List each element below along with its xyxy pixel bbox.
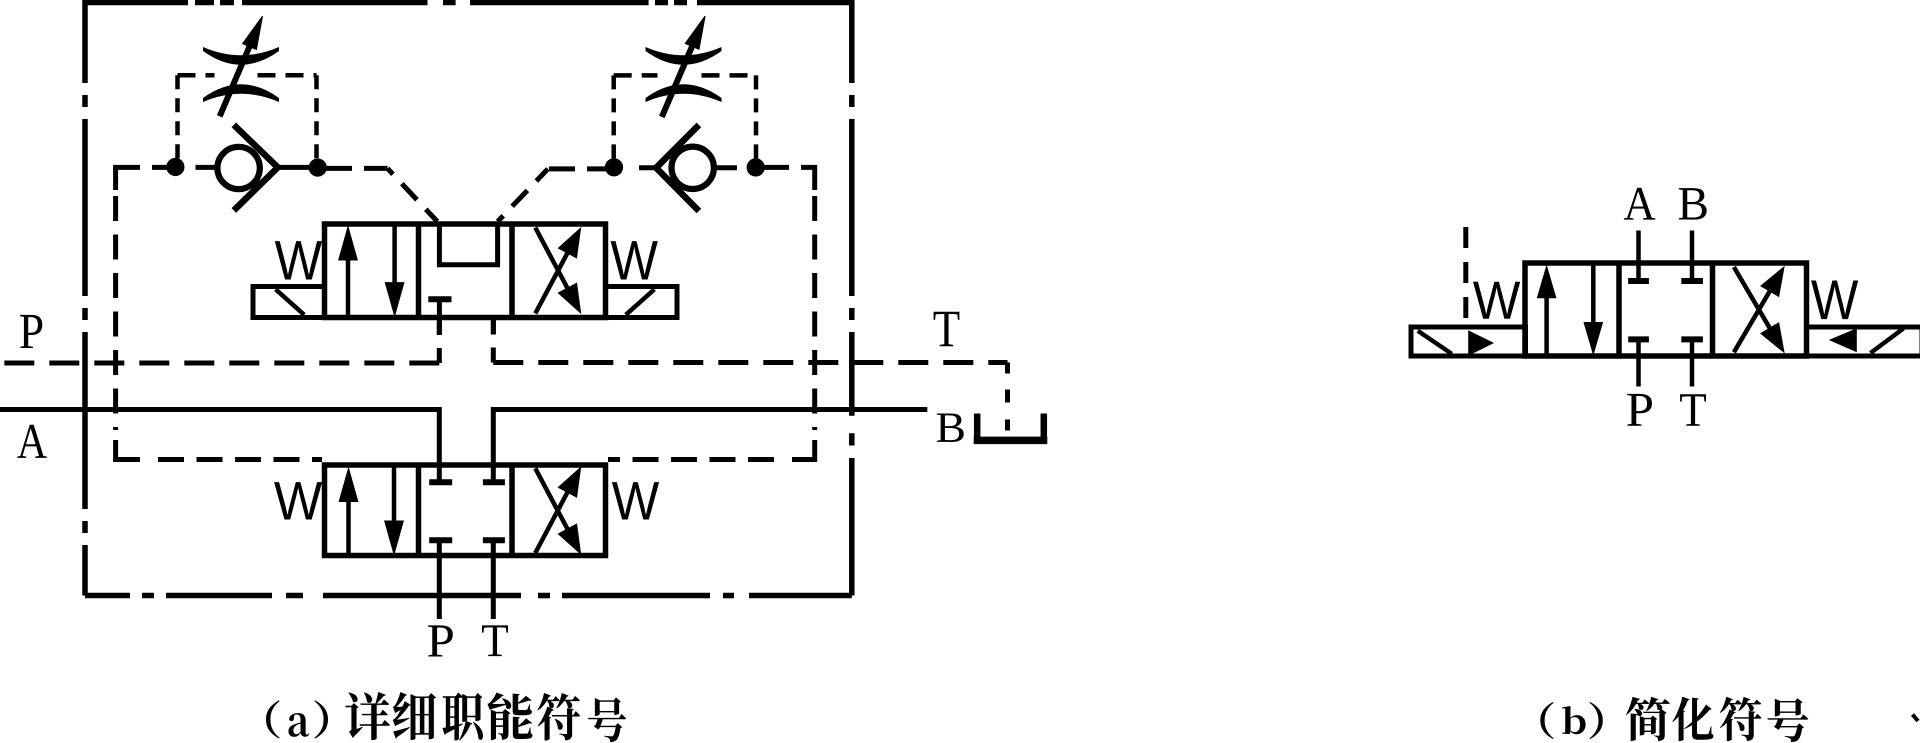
throttle (right) adjustment arrow [662,16,705,117]
enclosure boundary (a) chain-line right [849,0,855,596]
(b) pilot dashed vertical [1463,227,1468,327]
pilot wire left drop (dashed vertical x=115.6) [113,196,118,430]
pilot valve T port stub [491,318,496,335]
(b) centre blocked ports (4 bars) [1628,281,1703,339]
spring W (main valve left) [274,482,322,519]
pilot valve position dividers [419,224,513,318]
pilot wire segments around left check valve [116,167,312,190]
pilot wire from left check valve to pilot valve (dashes + diagonal) [326,166,388,171]
pilot valve right position crossed arrows [535,228,580,314]
flow control valve (right) dashed envelope [614,75,756,158]
throttle (right) arcs [646,47,722,65]
spring W (main valve right) [612,482,659,519]
wire T drop to tank [1005,363,1010,434]
check valve (right) seat [656,125,699,211]
junction dot (left-left) [167,158,184,175]
junction dot (right-right) [747,159,764,176]
simplified valve body (b) [1525,263,1807,356]
check valve (left) seat [234,125,278,211]
simplified valve dividers (b) [1619,263,1713,356]
(b) port label T [1680,394,1706,425]
(b) left position up-arrow [1537,266,1555,353]
pilot valve centre position blocked port [428,296,451,302]
(b) port label P [1627,394,1652,426]
spring W (pilot valve right) [611,241,658,279]
(b) right position crossed arrows [1734,267,1784,352]
wire P riser to pilot valve port [437,318,442,364]
pilot valve left position up-arrow [339,227,358,315]
(b) P/T stubs down [1639,339,1693,386]
(b) spring W right [1811,281,1858,320]
main valve position dividers [419,465,513,556]
junction dot (right-left) [605,159,622,176]
port line T (dashed, y=362.5) [493,360,1007,365]
solenoid (pilot valve left) [253,287,325,318]
caption (a) [266,692,626,742]
junction dot (left-right) [309,159,326,176]
(b) solenoid left [1411,327,1526,356]
port label B (right) [937,413,964,441]
wire T riser to pilot valve port [491,318,496,363]
pilot valve left position down-arrow [385,227,404,316]
port label T (bottom) [482,625,508,656]
main valve centre blocked ports (4 bars) [429,482,505,540]
(b) solenoid right [1807,327,1920,356]
pilot wire to main valve right end (dashed y=459.5) [608,457,780,462]
enclosure boundary (a) chain-line top [85,0,852,5]
port label P (bottom) [428,625,453,656]
port line B (solid, y=409.5) [493,410,927,483]
pilot wire right drop (dashed vertical x=814.7) [812,196,817,430]
stray ink mark right edge [1913,715,1919,722]
(b) port label A [1624,188,1655,220]
enclosure boundary (a) chain-line bottom [85,593,852,599]
solenoid (pilot valve right) [606,287,678,318]
pilot wire from pilot valve to right check valve (diagonal + dashes) [498,169,548,222]
main valve body [325,465,606,556]
main valve left position down-arrow [385,468,404,555]
(b) spring W left [1473,282,1520,319]
pilot wire segments around right check valve [639,167,815,190]
pilot valve centre position bridge [439,227,497,265]
port line A (solid, y=409.5) [0,410,439,483]
main valve P/T stubs down [439,540,493,619]
(b) port label B [1679,188,1707,219]
check valve (left) circle [217,147,259,189]
tank symbol [974,414,1048,441]
flow control valve (left) dashed envelope [178,75,317,158]
(b) A/B stubs up [1639,231,1693,282]
pilot valve body [325,224,606,318]
caption (b) [1540,697,1808,742]
main valve right position crossed arrows [535,468,580,554]
main valve left position up-arrow [339,468,358,553]
port label T (right) [934,312,960,346]
port label P (left) [20,315,42,348]
port line P (dashed pilot, y=363) [0,361,439,366]
pilot wire to main valve left end (dashed y=459.5) [152,457,322,462]
port label A (left) [17,425,47,458]
throttle (left) arcs [203,47,279,65]
spring W (pilot valve left) [275,241,322,279]
enclosure boundary (a) chain-line left [82,0,88,596]
(b) left position down-arrow [1584,266,1602,355]
throttle (left) adjustment arrow [220,16,263,116]
check valve (right) circle [672,147,714,189]
